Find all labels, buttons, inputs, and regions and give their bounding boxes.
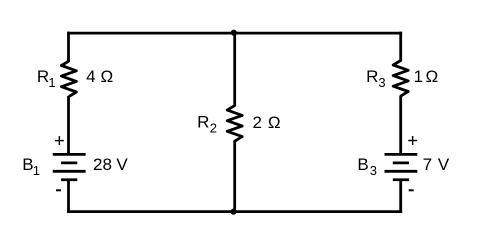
svg-text:Ω: Ω bbox=[426, 67, 439, 86]
svg-text:2: 2 bbox=[210, 121, 217, 136]
wire left middle segment bbox=[67, 96, 70, 154]
svg-text:1: 1 bbox=[48, 75, 55, 90]
resistor R3 bbox=[393, 61, 408, 97]
svg-text:R: R bbox=[197, 113, 209, 132]
battery B1 bbox=[53, 154, 86, 179]
svg-text:2: 2 bbox=[253, 113, 262, 132]
svg-text:7: 7 bbox=[423, 155, 432, 174]
wire bottom horizontal bbox=[67, 210, 402, 213]
svg-text:4: 4 bbox=[86, 67, 95, 86]
node bottom junction bbox=[230, 209, 236, 215]
svg-text:V: V bbox=[116, 155, 128, 174]
polarity minus B3 bbox=[409, 189, 414, 191]
wire right top segment bbox=[399, 32, 402, 62]
wire right bottom segment bbox=[399, 180, 402, 213]
svg-text:3: 3 bbox=[370, 163, 377, 178]
svg-text:R: R bbox=[366, 67, 378, 86]
svg-text:Ω: Ω bbox=[268, 113, 281, 132]
svg-text:28: 28 bbox=[93, 155, 112, 174]
svg-text:3: 3 bbox=[378, 75, 385, 90]
node top junction bbox=[231, 30, 237, 36]
wire left bottom segment bbox=[67, 180, 70, 213]
wire middle bottom segment bbox=[233, 140, 236, 213]
polarity minus B1 bbox=[56, 189, 61, 191]
resistor R2 bbox=[227, 106, 242, 142]
svg-text:V: V bbox=[438, 155, 450, 174]
svg-text:B: B bbox=[357, 155, 368, 174]
svg-text:1: 1 bbox=[33, 163, 40, 178]
battery B3 bbox=[385, 154, 418, 179]
svg-text:1: 1 bbox=[414, 67, 423, 86]
svg-text:Ω: Ω bbox=[101, 67, 114, 86]
resistor R1 bbox=[61, 61, 76, 97]
wire middle top segment bbox=[233, 32, 236, 107]
polarity plus B3 bbox=[408, 136, 417, 145]
polarity plus B1 bbox=[55, 136, 64, 145]
wire top horizontal bbox=[67, 32, 402, 35]
wire left top segment bbox=[67, 32, 70, 62]
svg-text:R: R bbox=[37, 67, 49, 86]
wire right middle segment bbox=[399, 96, 402, 155]
